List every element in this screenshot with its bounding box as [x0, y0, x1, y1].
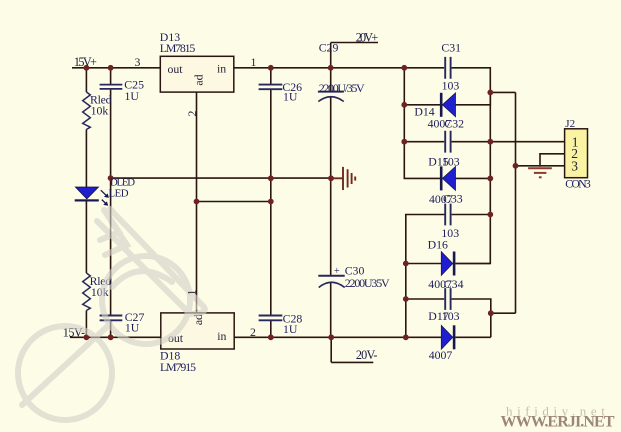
svg-text:LM7815: LM7815	[160, 41, 196, 55]
node 15V- rail 1	[84, 334, 90, 340]
svg-text:10k: 10k	[91, 103, 109, 117]
node C29 top	[328, 65, 334, 71]
watermark e bar	[22, 324, 110, 405]
svg-text:1U: 1U	[125, 321, 140, 335]
node right bus C32	[487, 139, 493, 145]
node C28 bottom	[268, 334, 274, 340]
svg-text:1: 1	[251, 55, 257, 69]
diode D14 (points left)	[440, 93, 456, 117]
svg-text:20V-: 20V-	[356, 348, 378, 362]
svg-text:C34: C34	[444, 277, 464, 291]
svg-text:4007: 4007	[429, 348, 453, 362]
wire jumper2 lower	[491, 312, 516, 314]
node 15V- rail 2	[108, 334, 114, 340]
capacitor C27 plates	[100, 316, 123, 321]
svg-text:2: 2	[185, 110, 199, 116]
watermark circle d	[102, 256, 190, 344]
watermark pencil edge B	[97, 221, 190, 314]
svg-text:C32: C32	[444, 116, 464, 130]
wire jumper node to J2 vertical	[490, 91, 515, 93]
svg-text:J2: J2	[565, 118, 575, 130]
wire column LED lower	[85, 201, 87, 273]
wire column below resistor 2	[85, 311, 87, 338]
watermark chevron 1	[100, 210, 119, 240]
node C26 top	[268, 65, 274, 71]
wire bottom rail right of U2	[234, 336, 441, 338]
svg-text:2200U/35V: 2200U/35V	[319, 81, 365, 95]
wire column C26 upper	[270, 68, 272, 84]
svg-text:20V+: 20V+	[356, 30, 379, 44]
power port 20V- stub	[331, 337, 373, 362]
svg-text:WWW.ERJI.NET: WWW.ERJI.NET	[501, 414, 615, 431]
wire top rail mid (U1 pin1 to C31)	[234, 67, 444, 69]
svg-text:out: out	[168, 62, 184, 76]
node D14 left	[401, 102, 407, 108]
op box U1 LM7815	[160, 56, 234, 92]
wire J2 pin2	[540, 154, 565, 166]
node C29 ground row	[328, 175, 334, 181]
LED DLED cathode bar	[75, 199, 99, 201]
svg-text:1U: 1U	[125, 89, 140, 103]
watermark circle e	[18, 326, 112, 420]
capacitor C25 plates	[100, 85, 123, 89]
wire C33 row	[406, 215, 491, 338]
wire column C26-C28	[270, 90, 272, 315]
LED DLED triangle	[76, 187, 99, 199]
svg-text:3: 3	[135, 55, 141, 69]
wire column C27 lower	[110, 321, 112, 337]
ground (center, horizontal)	[331, 167, 355, 190]
svg-text:1U: 1U	[283, 322, 298, 336]
wire column C29-C30	[330, 97, 332, 276]
svg-text:1: 1	[187, 289, 199, 295]
wire J2 pin3	[516, 165, 565, 167]
wire column C28 lower	[270, 321, 272, 337]
node right bus J2 tee	[487, 90, 493, 96]
node right bus lower tee	[488, 310, 494, 316]
watermark chevron 2	[105, 221, 127, 255]
ground (at J2, vertical)	[528, 166, 552, 178]
diode D15 (points left)	[440, 166, 456, 190]
wire column LED middle	[85, 130, 87, 188]
svg-text:C31: C31	[441, 41, 461, 55]
power port 20V+ stub	[331, 43, 378, 68]
svg-text:ad: ad	[191, 74, 205, 85]
watermark pencil body fill	[97, 209, 203, 314]
capacitor C29 electrolytic plate	[318, 91, 344, 93]
capacitor C26 plates	[259, 85, 283, 90]
node C30 bottom	[328, 334, 334, 340]
resistor Rled (top)	[83, 92, 91, 130]
node adj row right	[268, 199, 274, 205]
node C26 ground row	[268, 175, 274, 181]
svg-text:3: 3	[571, 158, 578, 173]
svg-text:LM7915: LM7915	[160, 360, 196, 374]
capacitor C33 plates	[445, 204, 450, 226]
node D16 left	[403, 261, 409, 267]
capacitor C31 plates (vertical)	[445, 57, 450, 79]
capacitor C30 electrolytic plate	[318, 275, 344, 277]
wire C32 row (to J2 pin1)	[404, 141, 564, 143]
capacitor C32 plates	[445, 131, 450, 153]
svg-text:D17: D17	[428, 309, 448, 323]
node DLED/ground row	[108, 175, 114, 181]
wire right bus upper	[455, 92, 490, 263]
svg-text:in: in	[217, 61, 226, 75]
watermark pencil edge A	[110, 209, 203, 306]
svg-text:+: +	[334, 266, 340, 277]
svg-text:1U: 1U	[283, 89, 298, 103]
wire C34 row	[406, 299, 491, 337]
wire bottom rail left (15V- to U2)	[70, 336, 161, 338]
watermark e curl	[112, 271, 172, 287]
svg-text:C29: C29	[319, 41, 339, 55]
svg-text:CON3: CON3	[565, 179, 591, 191]
wire adj link row	[197, 201, 271, 203]
node C32 left	[401, 139, 407, 145]
node right bus D15	[487, 176, 493, 182]
wire column C25 upper	[110, 68, 112, 84]
wire column C25-C27	[110, 90, 112, 315]
wire left bus cells 1-2	[404, 68, 440, 179]
node 15V+/rail	[84, 65, 90, 71]
wire D16 row	[406, 263, 491, 265]
wire column Rled/LED upper	[85, 68, 87, 92]
watermark pencil tip curl	[190, 306, 205, 314]
op box U2 LM7915	[161, 313, 234, 349]
resistor Rled (bottom)	[83, 273, 91, 311]
capacitor C28 plates	[259, 316, 283, 321]
capacitor C34 plates	[445, 288, 450, 310]
wire D14 row right	[455, 92, 490, 104]
node J2 pin3 tee	[513, 163, 519, 169]
diode D16 (points right)	[441, 252, 455, 276]
capacitor C29 electrolytic arc	[318, 97, 344, 102]
capacitor C30 electrolytic arc	[319, 282, 345, 287]
node right bus C33	[487, 212, 493, 218]
LED arrow 1	[101, 190, 109, 198]
node adj row left	[194, 199, 200, 205]
svg-text:LED: LED	[109, 187, 129, 199]
wire top rail right (C31 to right bus corner)	[452, 68, 491, 93]
svg-text:2: 2	[250, 325, 256, 339]
wire bottom rail D17 right	[455, 336, 490, 338]
svg-text:C33: C33	[443, 192, 463, 206]
svg-text:103: 103	[442, 79, 460, 93]
LED arrow 2	[102, 200, 108, 206]
connector J2 box	[565, 129, 588, 178]
wire U1 pin2 to U2 pin1 column	[196, 92, 198, 313]
wire D14 row left	[404, 104, 440, 106]
wire top rail left (15V+ to U1)	[72, 67, 160, 69]
diode D17 (points right)	[441, 325, 455, 349]
svg-text:15V+: 15V+	[74, 55, 97, 69]
node C25 top	[108, 65, 114, 71]
svg-text:D16: D16	[428, 238, 448, 252]
wire column C29 upper	[330, 68, 332, 92]
svg-text:in: in	[217, 329, 226, 343]
wire D15 row right	[455, 177, 490, 179]
wire ground row	[111, 177, 331, 179]
wire column C30 lower	[330, 282, 332, 337]
node C34 left	[403, 296, 409, 302]
node bus2 bottom	[403, 334, 409, 340]
wire J2 vertical	[515, 92, 517, 313]
watermark overlay logo	[18, 209, 205, 420]
svg-text:2200U35V: 2200U35V	[345, 276, 390, 290]
svg-text:D15: D15	[428, 155, 448, 169]
node bus1 top	[401, 65, 407, 71]
